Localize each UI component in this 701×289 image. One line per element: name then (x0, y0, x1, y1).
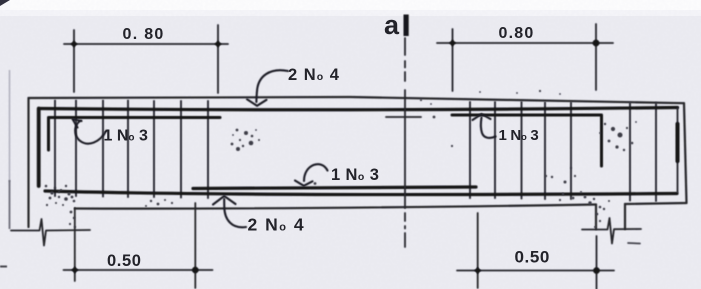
centre line main segment (404, 90, 406, 208)
stirrup R4 (544, 103, 546, 200)
arrow for right 1 No 3 (473, 114, 496, 138)
right support left edge (595, 205, 597, 230)
rebar: 1 No 3 bottom centre bar (193, 187, 476, 189)
right break line with zigzag (582, 218, 641, 244)
dim 0.80 top-left extension B (217, 25, 219, 93)
marker diamond 0.80 TL-B (215, 41, 222, 48)
bottom leg (45, 191, 677, 195)
centre line crossing tick (386, 116, 421, 118)
svg-text:1 No 3: 1 No 3 (331, 166, 379, 184)
arrow for left 1 No 3 (73, 119, 107, 144)
rebar: 1 No 3 right top bar with hook (452, 115, 602, 166)
beam right end edge (684, 103, 687, 203)
stirrup L2 (75, 101, 77, 197)
dim 0.80 top-right extension A (452, 29, 454, 91)
stirrup L3 (102, 101, 104, 197)
right support right edge (624, 204, 626, 229)
dimension markers (71, 40, 600, 275)
svg-text:a: a (384, 10, 400, 40)
svg-text:1 No 3: 1 No 3 (104, 128, 148, 145)
rebar: 1 No 3 left top bar with hook (49, 118, 221, 151)
stirrup L6 (180, 101, 182, 198)
beam top edge (29, 97, 685, 103)
section cut bar (404, 15, 409, 37)
dim 0.80 top-left line (64, 43, 228, 45)
small dash right lower area (628, 242, 640, 245)
stirrup R3 (521, 102, 523, 199)
scan corner mark top-left (0, 0, 10, 6)
scan artifact tick left edge (0, 266, 7, 268)
stirrup R5 (570, 103, 572, 200)
svg-text:2 No 4: 2 No 4 (288, 66, 340, 84)
svg-text:0.50: 0.50 (515, 248, 551, 267)
2No4 right end leg (thick part) (676, 124, 680, 161)
2No4 right end leg (thin part) (677, 108, 679, 192)
dim 0.80 top-right extension B (595, 24, 597, 90)
svg-text:1 No 3: 1 No 3 (499, 127, 539, 144)
dim 0.50 bottom-left extension A (support edge) (74, 208, 76, 281)
dim 0.50 bottom-right extension B (596, 236, 598, 289)
marker diamond 0.80 TR-A (449, 40, 456, 47)
centre line dash 4 (404, 213, 406, 221)
svg-text:0.80: 0.80 (499, 25, 535, 42)
dim 0.80 top-left extension A (73, 30, 75, 92)
stirrup R6 (629, 103, 631, 201)
beam bottom edge mid-span (75, 205, 596, 209)
svg-text:0.50: 0.50 (107, 252, 142, 270)
marker diamond 0.50 BR-A (474, 267, 481, 274)
centre line dash 2 (404, 61, 406, 68)
centre line dash 5 (404, 233, 406, 247)
marker diamond 0.80 TL-A (71, 41, 78, 48)
beam bottom edge right of support (625, 203, 687, 204)
centre line dash 3 (404, 72, 406, 81)
left break line with zigzag (11, 219, 90, 246)
top leg (39, 108, 678, 110)
arrow for centre 1 No 3 (295, 164, 328, 186)
dim 0.80 top-right line (437, 42, 613, 44)
stirrup R2 (494, 102, 496, 198)
marker dot 0.50 BR-B (593, 267, 600, 274)
arrow for top 2 No 4 (247, 70, 288, 106)
dim 0.50 bottom-right extension A (477, 213, 479, 288)
arrow for bottom 2 No 4 (213, 196, 246, 227)
stirrup L7 (207, 101, 209, 198)
stirrup L4 (127, 101, 129, 198)
centre line dash 1 (404, 38, 406, 55)
centre line dot (404, 226, 406, 229)
svg-text:2 No 4: 2 No 4 (248, 215, 306, 235)
left end vertical leg (37, 109, 41, 187)
svg-text:0. 80: 0. 80 (123, 26, 165, 43)
beam left end edge (27, 98, 29, 227)
scan artifact vertical line left margin (9, 70, 11, 182)
stirrup L5 (153, 101, 155, 197)
marker diamond 0.50 BL-A (71, 267, 78, 274)
dim 0.50 bottom-right line (457, 270, 614, 272)
stirrup R7 (655, 103, 657, 201)
dim 0.50 bottom-left extension B (194, 203, 196, 288)
dim 0.50 bottom-left line (64, 269, 213, 271)
marker dot 0.80 TR-B (593, 40, 600, 47)
stirrup L1 (54, 101, 56, 197)
stirrup R1 (469, 102, 471, 198)
marker dot 0.50 BL-B (192, 267, 199, 274)
